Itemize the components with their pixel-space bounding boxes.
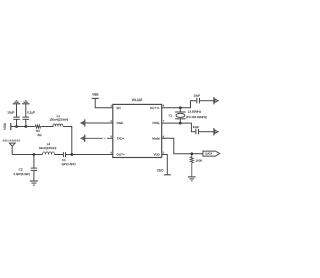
antenna symbol [9,143,15,154]
svg-text:3.3pF(3.3pF): 3.3pF(3.3pF) [13,172,30,176]
svg-text:EN: EN [117,106,121,110]
wire VBB rail [11,126,35,128]
svg-text:OUT+/-: OUT+/- [150,106,160,110]
svg-text:C2: C2 [19,167,23,171]
svg-text:VDD: VDD [153,153,160,157]
capacitor 10pF (top) [194,94,201,104]
ground (inverted, above 0.1uF) [22,101,30,104]
wire node up to cap [180,101,197,108]
node C2 junction [33,153,36,156]
wire pin 7 to crystal node [162,122,181,124]
crystal Y1 [168,108,207,123]
ground port (lower right, bar+arrow) [214,128,218,135]
wire pin 5 to VDD port [162,155,168,175]
IC U1 WL118 [113,98,162,158]
svg-text:10pF: 10pF [194,94,201,98]
svg-text:82nH(150nH): 82nH(150nH) [39,146,56,150]
ground port (top right, bar+arrow) [214,97,218,104]
capacitor C1 1pF [61,152,75,166]
svg-text:1pF(1.5pF): 1pF(1.5pF) [61,162,75,166]
svg-text:VBB: VBB [3,122,7,129]
svg-text:10pF: 10pF [193,125,200,129]
wire L1 to corner, down to node [63,127,72,155]
svg-text:10uF: 10uF [7,111,14,115]
capacitor 0.1uF [23,104,36,127]
svg-text:(F0 433.92MHz): (F0 433.92MHz) [186,115,207,119]
node pin8/crystal junction [179,106,182,109]
inductor L1 150nH [49,114,68,126]
ground (below C2) [30,181,38,185]
power port VDD [157,168,171,175]
svg-text:GND: GND [117,121,125,125]
wire C1 to pin4 [66,154,113,156]
node pin7/crystal junction [179,122,182,125]
svg-text:Y1: Y1 [168,114,172,118]
capacitor C2 3.3pF [13,155,37,182]
wire L2 to C1 [55,154,64,156]
inductor L2 82nH [39,142,56,155]
svg-text:DATA: DATA [205,153,212,156]
svg-text:8: 8 [163,105,165,108]
svg-text:OUT+: OUT+ [117,153,125,157]
node cap C-B junction [24,125,27,128]
wire cap to ground port (top) [200,100,214,102]
power port VBB (above pin 1) [92,93,99,99]
port arrow (pin 3) [81,135,85,142]
wire port to pin 2 [85,122,113,124]
wire node to cap (lower) [180,123,196,132]
node data junction [190,152,193,155]
wire VBB to pin 1 [95,98,113,107]
capacitor 10uF [7,104,20,127]
svg-text:WL118: WL118 [132,98,143,102]
svg-text:3: 3 [110,135,112,138]
port arrow (pin 2) [81,119,85,126]
ground (inverted, above 10uF) [13,101,21,104]
svg-text:VDD: VDD [157,168,164,172]
wire pin 8 to crystal node [162,107,181,109]
svg-text:6Ω: 6Ω [38,133,43,137]
wire R3 to L1 [41,126,53,128]
capacitor 10pF (lower) [193,125,200,134]
svg-text:13.56MHz: 13.56MHz [188,110,202,114]
resistor R3 6ohm [35,125,43,137]
node cap C-A junction [15,125,18,128]
svg-text:VBB: VBB [92,93,98,97]
wire cap to ground port (lower) [199,131,214,133]
svg-text:7: 7 [163,120,165,123]
wire pin 6 to data node [162,138,203,154]
svg-text:FIN/L: FIN/L [152,121,160,125]
ground (below 100K) [188,177,196,181]
svg-text:TXD+: TXD+ [117,137,125,141]
node L1/C1/pin4 junction [70,153,73,156]
power port VBB (left rail) [3,122,11,130]
svg-text:150nH(150nH): 150nH(150nH) [49,118,68,122]
svg-text:Mode: Mode [152,137,160,141]
svg-text:100K: 100K [196,159,203,163]
svg-text:0.1uF: 0.1uF [27,111,35,115]
antenna (ceramic helical) label [3,140,21,142]
wire port to pin 3 (dashed) [85,137,113,139]
port DATA [203,151,220,156]
wire antenna rail [12,154,42,156]
resistor R4 100K [190,154,202,177]
